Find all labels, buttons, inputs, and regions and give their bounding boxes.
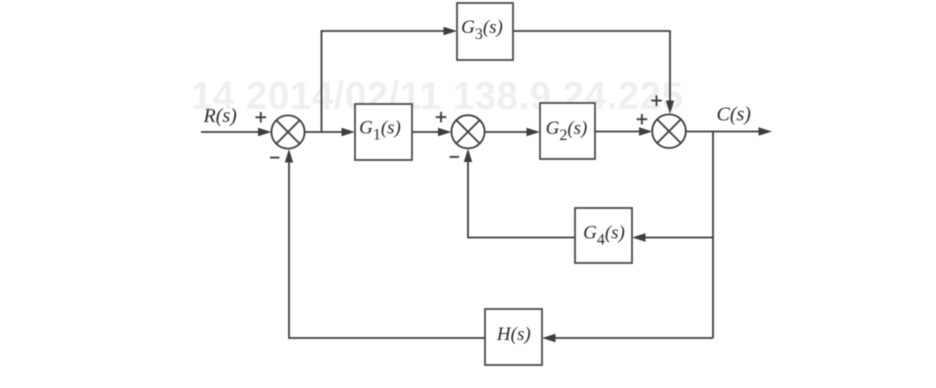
- block G4: [575, 208, 632, 263]
- wire G4 to S2 feedback: [468, 161, 575, 238]
- wire G1 to S2: [412, 131, 438, 133]
- label R(s): [203, 105, 238, 127]
- arrowhead into G2: [527, 128, 541, 136]
- minus sign at S1 feedback: [270, 157, 280, 159]
- summing junction S2: [451, 115, 484, 148]
- minus sign at S2 feedback: [450, 156, 460, 158]
- plus sign at S3 left input: [637, 114, 648, 125]
- wire S1 to G1: [305, 131, 342, 133]
- watermark 14 2014/02/11 138.9.24.225: [191, 75, 683, 118]
- plus sign at S1 input: [256, 112, 267, 123]
- arrowhead into H right side: [542, 334, 556, 342]
- arrowhead into G1: [342, 128, 356, 136]
- wire branch up from node after S1: [321, 31, 323, 132]
- arrowhead into S1 bottom: [285, 149, 293, 163]
- wire H to S1 feedback: [289, 162, 485, 338]
- arrowhead into S3: [639, 127, 652, 135]
- wire G3 to corner and down to S3: [513, 31, 670, 101]
- svg-text:14 2014/02/11 138.9.24.225: 14 2014/02/11 138.9.24.225: [191, 75, 683, 118]
- block H: [485, 309, 542, 365]
- svg-text:C(s): C(s): [717, 104, 752, 126]
- summing junction S1: [271, 115, 304, 148]
- svg-text:H(s): H(s): [496, 324, 531, 345]
- arrowhead into S2 bottom: [464, 149, 472, 163]
- wire G2 to S3: [595, 131, 639, 133]
- arrowhead into summer S1: [258, 128, 272, 136]
- block G3: [457, 3, 513, 60]
- wire input R(s) to summer S1: [201, 131, 259, 133]
- wire tap to G4: [645, 237, 713, 239]
- plus sign at S3 top input: [651, 95, 662, 106]
- arrowhead into G3: [444, 27, 458, 35]
- summing junction S3: [652, 114, 686, 148]
- block G2: [540, 103, 595, 159]
- arrowhead output: [759, 127, 773, 135]
- wire top branch to G3: [321, 30, 444, 32]
- block G1: [355, 104, 412, 160]
- wire S2 to G2: [485, 131, 527, 133]
- label C(s): [717, 104, 752, 126]
- arrowhead into S2: [438, 128, 451, 136]
- arrowhead into S3 top: [666, 101, 674, 115]
- wire output tap down: [712, 132, 714, 339]
- plus sign at S2 input: [436, 112, 447, 123]
- wire tap to H: [555, 337, 713, 339]
- svg-text:R(s): R(s): [203, 105, 238, 127]
- wire S3 to output C(s): [686, 131, 759, 133]
- arrowhead into G4 right side: [632, 233, 646, 241]
